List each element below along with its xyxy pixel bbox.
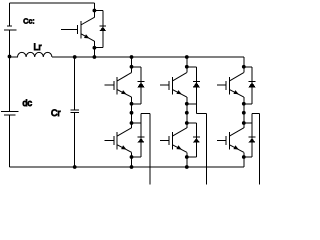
node leg1 lower collector — [130, 121, 134, 125]
voltage source Cc (clamp source) — [4, 26, 17, 30]
node leg2 lower emitter — [185, 155, 189, 159]
IGBT Q5 — [217, 67, 244, 104]
node leg1 rail — [130, 165, 134, 169]
node leg1 phase — [130, 111, 134, 115]
capacitor Cr — [71, 57, 79, 167]
wire leg3 emitter to rail — [243, 157, 245, 167]
wire clamp drop — [93, 3, 95, 11]
diode D6 — [187, 123, 200, 157]
wire left rail bottom — [9, 115, 11, 167]
wire leg2 emitter to rail — [186, 157, 188, 167]
node leg2 upper collector — [185, 65, 189, 69]
node leg1 lower emitter — [130, 155, 134, 159]
IGBT Q3 — [160, 67, 187, 104]
wire leg2 midpoint — [186, 104, 188, 128]
IGBT Q1 — [105, 67, 132, 104]
wire bottom rail — [10, 166, 244, 168]
svg-text:Cc:: Cc: — [23, 18, 35, 25]
diode D3 — [187, 67, 200, 104]
node clamp bus — [93, 55, 97, 59]
dc source battery — [1, 112, 19, 116]
node leg3 upper collector — [242, 65, 246, 69]
clamp IGBT S7 — [61, 11, 94, 48]
svg-text:Cr: Cr — [51, 108, 61, 118]
IGBT Q6 — [160, 128, 187, 157]
diode D2 — [244, 114, 256, 157]
IGBT Q2 — [217, 128, 244, 157]
diode D1 — [132, 67, 145, 104]
svg-text:dc: dc — [23, 98, 33, 108]
node leg1 upper emitter — [130, 102, 134, 106]
node leg3 lower emitter — [242, 155, 246, 159]
wire leg2 phase tap — [196, 104, 206, 185]
inductor Lr — [10, 52, 52, 57]
wire leg1 midpoint — [131, 104, 133, 128]
wire leg2 bus to collector — [186, 57, 188, 67]
node leg3 upper emitter — [242, 102, 246, 106]
wire leg3 midpoint — [243, 104, 245, 128]
node leg2 rail — [185, 165, 189, 169]
svg-text:Lr: Lr — [34, 42, 42, 52]
node leg1 bus — [130, 55, 134, 59]
wire leg3 phase tap — [252, 114, 260, 185]
wire leg1 bus to collector — [131, 57, 133, 67]
node clamp emitter — [93, 46, 97, 50]
wire top rail — [10, 2, 95, 4]
wire leg1 phase tap — [141, 114, 150, 185]
node leg2 lower collector — [185, 121, 189, 125]
wire left rail lower — [9, 57, 11, 112]
node leg3 lower collector — [242, 121, 246, 125]
node leg2 phase — [185, 111, 189, 115]
diode D5 — [244, 67, 256, 104]
wire resonant bus — [52, 56, 244, 58]
node clamp top — [93, 9, 97, 13]
node leg1 upper collector — [130, 65, 134, 69]
node leg2 bus — [185, 55, 189, 59]
IGBT Q4 — [105, 128, 132, 157]
wire left rail middle — [9, 30, 11, 57]
node leg3 phase — [242, 111, 246, 115]
wire left rail upper — [9, 3, 11, 26]
wire leg3 bus to collector — [243, 57, 245, 67]
diode D4 — [132, 114, 145, 157]
node Cr bottom — [73, 165, 77, 169]
wire leg1 emitter to rail — [131, 157, 133, 167]
node junction Lr-dc — [8, 55, 12, 59]
node leg2 upper emitter — [185, 102, 189, 106]
node Cr top — [73, 55, 77, 59]
wire clamp to bus — [93, 48, 95, 57]
clamp diode D7 — [94, 11, 106, 48]
